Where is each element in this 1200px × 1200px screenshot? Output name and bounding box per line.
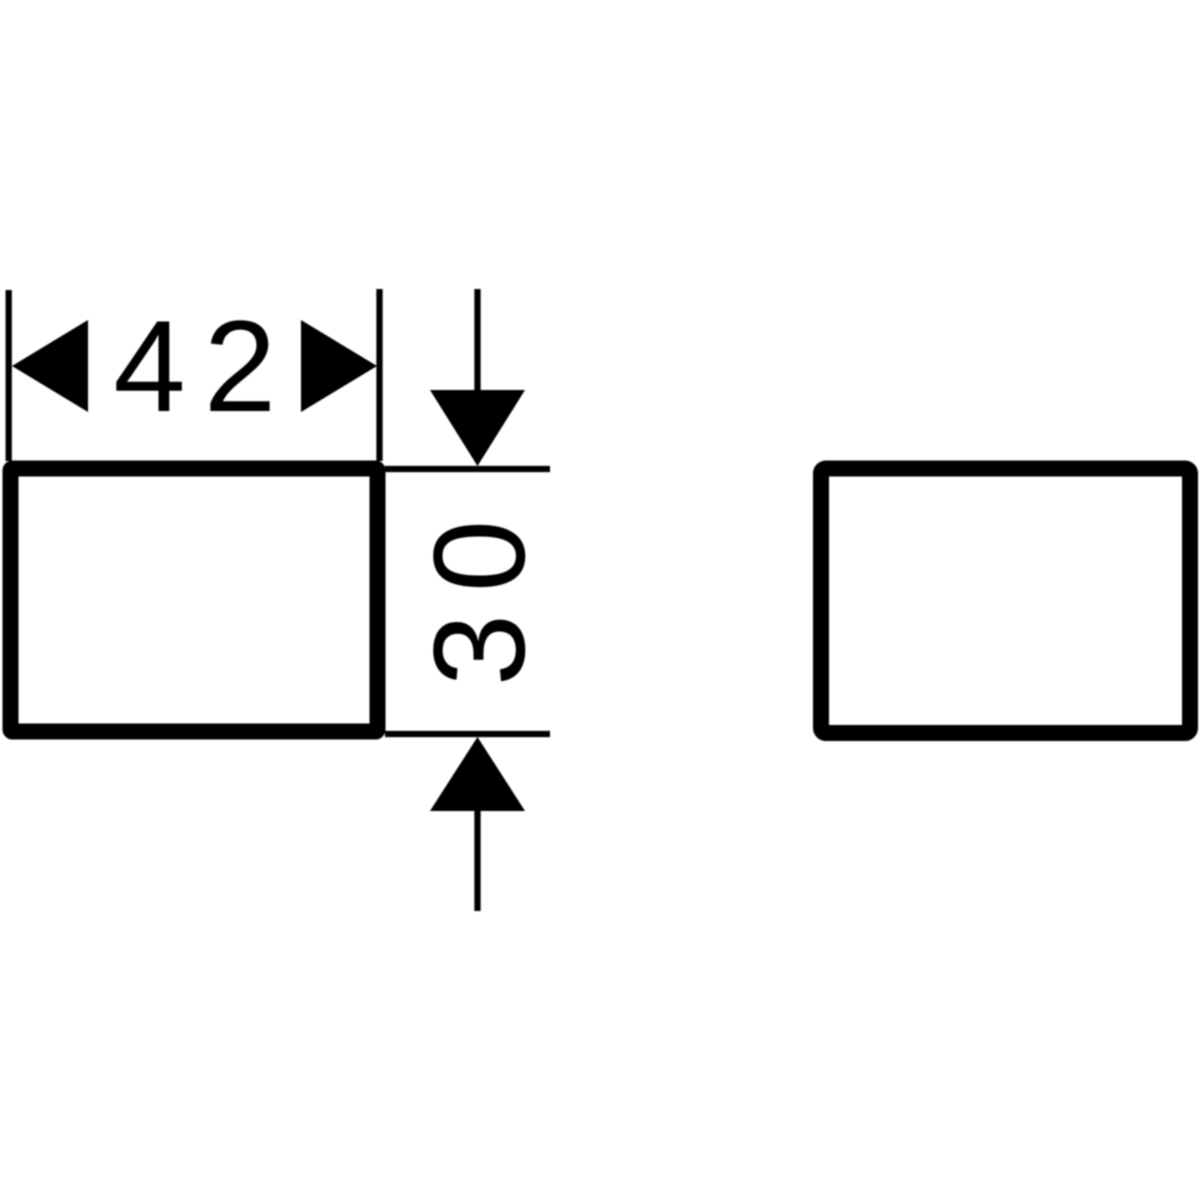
svg-text:3: 3: [406, 614, 552, 686]
svg-text:4: 4: [113, 293, 185, 439]
svg-text:0: 0: [406, 520, 552, 592]
svg-text:2: 2: [204, 293, 276, 439]
